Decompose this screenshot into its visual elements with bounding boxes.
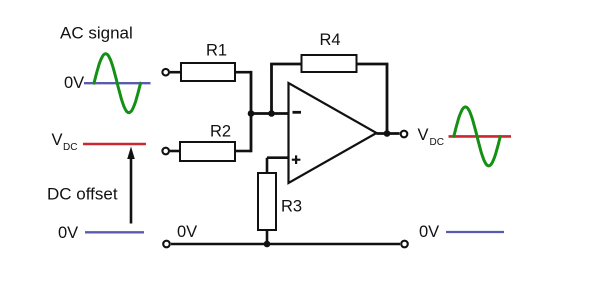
junction: summing node [248, 110, 255, 117]
resistor R3 [258, 173, 276, 230]
wire: op-amp output [377, 132, 400, 135]
svg-text:0V: 0V [58, 224, 78, 242]
svg-text:DC offset: DC offset [47, 185, 118, 204]
terminal: 0V rail left [163, 241, 170, 248]
svg-text:0V: 0V [419, 223, 439, 241]
svg-text:0V: 0V [64, 74, 84, 92]
svg-text:DC: DC [430, 137, 444, 148]
wire: summing node to inverting input [251, 112, 289, 115]
node: VDC level line (left, red) [83, 143, 146, 146]
wire: feedback left vertical [270, 64, 273, 114]
waveform: output sine (right, green) [454, 107, 501, 166]
junction: R3 rail node [264, 241, 271, 248]
wire: vertical joining R1 and R2 outputs [250, 71, 253, 152]
svg-text:0V: 0V [177, 223, 197, 241]
wire: R3 to ground rail [266, 230, 269, 244]
svg-text:R2: R2 [210, 123, 231, 141]
wire: input 1 to R1 [170, 71, 181, 74]
node: 0V reference line (bottom right, blue) [446, 231, 504, 233]
svg-text:AC signal: AC signal [60, 24, 133, 43]
svg-text:DC: DC [63, 142, 77, 153]
node: VDC output level line (red) [449, 135, 512, 138]
node: 0V reference line (top left, blue) [84, 82, 151, 84]
resistor R4 [302, 55, 357, 72]
node: 0V reference line (bottom left, blue) [85, 231, 144, 233]
pin: non-inverting input plus [292, 155, 301, 164]
svg-text:R1: R1 [206, 42, 227, 60]
terminal: input 2 (DC) [162, 148, 169, 155]
wire: feedback top left [270, 63, 301, 66]
resistor R2 [180, 142, 235, 161]
svg-text:V: V [52, 131, 63, 149]
wire: feedback right vertical [386, 64, 389, 134]
svg-text:R3: R3 [281, 198, 302, 216]
svg-text:V: V [418, 126, 429, 144]
wire: feedback top right [357, 63, 389, 66]
op-amp U1 [289, 83, 377, 183]
svg-text:R4: R4 [320, 31, 341, 49]
junction: feedback tap [268, 110, 275, 117]
wire: R2 to node vertical [235, 150, 251, 153]
resistor R1 [181, 63, 235, 81]
junction: output node [384, 130, 391, 137]
wire: input 2 to R2 [170, 150, 180, 153]
terminal: output [401, 131, 408, 138]
terminal: 0V rail right [401, 241, 408, 248]
terminal: input 1 (AC) [162, 69, 169, 76]
waveform: AC signal sine (left, green) [94, 54, 141, 113]
wire: plus input to R3 [267, 158, 289, 173]
arrow: DC offset arrow [130, 157, 133, 224]
pin: inverting input minus [293, 111, 302, 114]
wire: 0V rail [171, 243, 400, 246]
wire: R1 to node vertical [235, 71, 251, 74]
